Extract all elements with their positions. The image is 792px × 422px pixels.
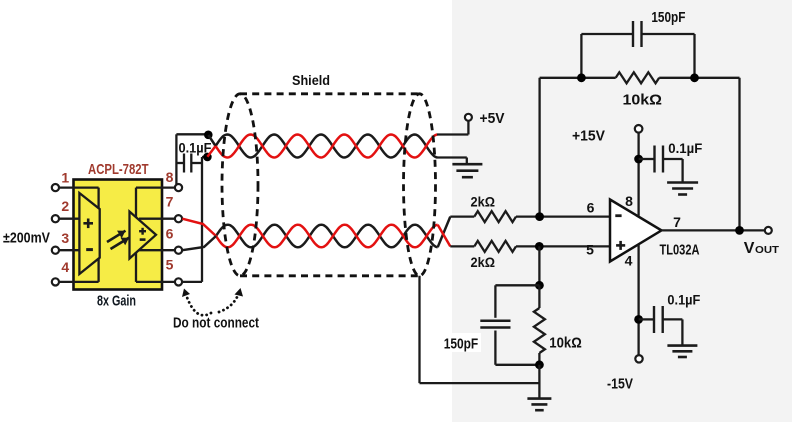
svg-text:0.1µF: 0.1µF — [667, 292, 700, 308]
svg-text:150pF: 150pF — [651, 9, 685, 26]
svg-text:±200mV: ±200mV — [3, 230, 50, 247]
svg-text:5: 5 — [166, 257, 174, 273]
svg-text:8: 8 — [166, 169, 174, 185]
svg-text:8x Gain: 8x Gain — [97, 293, 136, 310]
svg-text:6: 6 — [587, 200, 595, 216]
svg-text:OUT: OUT — [755, 244, 780, 256]
svg-text:6: 6 — [166, 226, 174, 242]
svg-text:5: 5 — [586, 242, 594, 258]
svg-text:10kΩ: 10kΩ — [549, 335, 582, 352]
svg-text:4: 4 — [625, 253, 633, 269]
svg-text:+5V: +5V — [480, 110, 505, 127]
svg-text:Do not connect: Do not connect — [173, 315, 259, 332]
svg-text:4: 4 — [61, 259, 69, 275]
svg-text:+15V: +15V — [572, 128, 605, 145]
svg-text:10kΩ: 10kΩ — [623, 92, 663, 109]
svg-text:1: 1 — [61, 170, 69, 186]
svg-text:7: 7 — [673, 214, 681, 230]
svg-text:V: V — [744, 240, 755, 257]
svg-text:2kΩ: 2kΩ — [471, 194, 496, 210]
svg-text:150pF: 150pF — [444, 336, 479, 353]
svg-text:2kΩ: 2kΩ — [471, 254, 496, 270]
svg-text:7: 7 — [166, 194, 174, 210]
svg-text:3: 3 — [61, 230, 69, 246]
svg-text:8: 8 — [625, 193, 633, 209]
svg-text:-15V: -15V — [607, 376, 633, 393]
svg-text:ACPL-782T: ACPL-782T — [88, 161, 149, 178]
svg-text:2: 2 — [61, 198, 69, 214]
svg-text:0.1µF: 0.1µF — [668, 140, 702, 156]
svg-text:Shield: Shield — [292, 72, 330, 88]
svg-text:TL032A: TL032A — [660, 242, 700, 259]
